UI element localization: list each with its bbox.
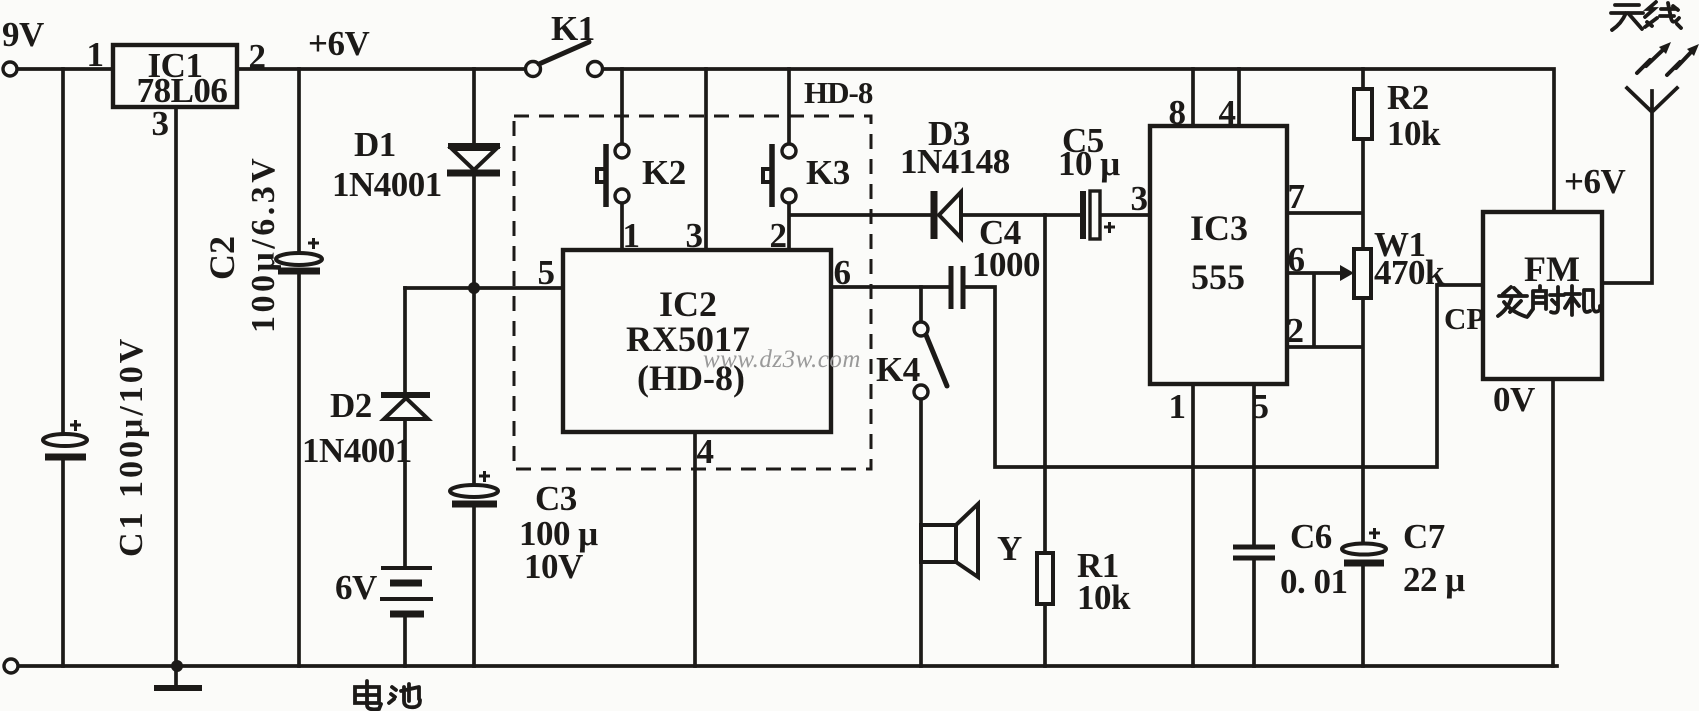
svg-text:10V: 10V xyxy=(524,547,583,586)
svg-text:3: 3 xyxy=(152,104,169,143)
svg-text:10k: 10k xyxy=(1077,578,1131,617)
svg-text:4: 4 xyxy=(1219,93,1236,132)
svg-text:1: 1 xyxy=(623,216,640,255)
svg-text:Y: Y xyxy=(997,529,1022,568)
svg-text:10 μ: 10 μ xyxy=(1058,144,1120,183)
svg-text:1N4001: 1N4001 xyxy=(302,431,412,470)
svg-text:6: 6 xyxy=(1288,240,1305,279)
svg-text:+6V: +6V xyxy=(308,24,369,63)
svg-text:2: 2 xyxy=(249,37,266,76)
svg-text:C3: C3 xyxy=(535,479,577,518)
svg-text:C6: C6 xyxy=(1290,517,1332,556)
svg-text:D2: D2 xyxy=(330,386,372,425)
svg-text:6: 6 xyxy=(834,253,851,292)
svg-text:1: 1 xyxy=(1169,387,1186,426)
svg-text:C7: C7 xyxy=(1403,517,1445,556)
svg-text:22 μ: 22 μ xyxy=(1403,560,1465,599)
svg-text:0V: 0V xyxy=(1493,380,1535,419)
svg-text:IC2: IC2 xyxy=(659,284,717,324)
svg-text:10k: 10k xyxy=(1387,114,1441,153)
svg-text:1N4148: 1N4148 xyxy=(900,142,1010,181)
svg-text:www.dz3w.com: www.dz3w.com xyxy=(703,346,861,373)
svg-text:K3: K3 xyxy=(806,153,850,192)
svg-text:1000: 1000 xyxy=(972,245,1040,284)
svg-text:1N4001: 1N4001 xyxy=(332,165,442,204)
svg-text:CP: CP xyxy=(1444,301,1485,336)
svg-text:C2: C2 xyxy=(202,236,242,280)
svg-text:5: 5 xyxy=(538,253,555,292)
svg-text:3: 3 xyxy=(686,216,703,255)
svg-text:1: 1 xyxy=(87,35,104,74)
svg-text:9V: 9V xyxy=(2,15,44,54)
svg-text:K2: K2 xyxy=(642,153,686,192)
svg-text:K1: K1 xyxy=(551,9,595,48)
svg-text:0. 01: 0. 01 xyxy=(1280,562,1348,601)
svg-text:K4: K4 xyxy=(876,350,920,389)
svg-text:IC3: IC3 xyxy=(1190,208,1248,248)
svg-text:100μ/6.3V: 100μ/6.3V xyxy=(245,155,282,333)
svg-text:7: 7 xyxy=(1288,177,1305,216)
svg-text:4: 4 xyxy=(697,432,714,471)
svg-text:2: 2 xyxy=(770,216,787,255)
svg-text:8: 8 xyxy=(1169,93,1186,132)
svg-text:D1: D1 xyxy=(354,125,396,164)
svg-text:+6V: +6V xyxy=(1564,162,1625,201)
svg-text:HD-8: HD-8 xyxy=(804,75,873,110)
svg-text:FM: FM xyxy=(1524,249,1580,289)
svg-text:6V: 6V xyxy=(335,568,377,607)
svg-text:78L06: 78L06 xyxy=(137,71,228,110)
svg-text:470k: 470k xyxy=(1374,253,1445,292)
svg-text:555: 555 xyxy=(1191,257,1245,297)
svg-text:2: 2 xyxy=(1287,311,1304,350)
svg-text:C1 100μ/10V: C1 100μ/10V xyxy=(113,336,150,557)
svg-text:3: 3 xyxy=(1131,179,1148,218)
svg-text:R2: R2 xyxy=(1387,78,1429,117)
svg-text:5: 5 xyxy=(1252,387,1269,426)
